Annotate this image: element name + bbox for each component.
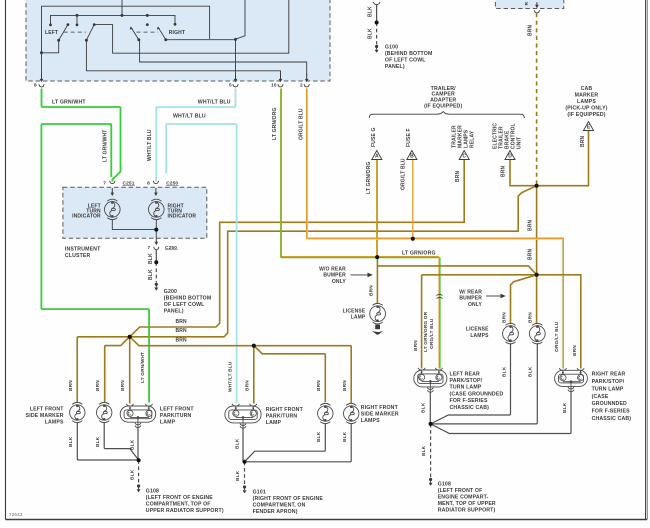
terminal C trailer marker lamps relay [459, 151, 469, 160]
connector arc top of G100 wire [373, 2, 380, 5]
svg-text:ENGINE COMPART-: ENGINE COMPART- [438, 494, 489, 500]
svg-text:TURN LAMP: TURN LAMP [450, 385, 482, 391]
svg-text:BLK: BLK [68, 436, 74, 447]
svg-text:INSTRUMENT: INSTRUMENT [65, 246, 101, 252]
node bus junction feed [121, 14, 124, 17]
svg-text:ORG/LT BLU: ORG/LT BLU [554, 321, 560, 352]
svg-text:LEFT FRONT: LEFT FRONT [30, 407, 64, 413]
svg-text:(RIGHT FRONT OF ENGINE: (RIGHT FRONT OF ENGINE [253, 496, 324, 502]
connector arc below R box [534, 10, 539, 13]
wire BLK from license lamp 2 [431, 343, 538, 424]
svg-text:PARK/STOP/: PARK/STOP/ [592, 379, 625, 385]
svg-text:(PICK-UP ONLY): (PICK-UP ONLY) [565, 106, 607, 112]
svg-text:BLK: BLK [368, 28, 374, 39]
pin 7 connector C250 below cluster [155, 238, 157, 244]
svg-text:BRN: BRN [120, 380, 126, 391]
wire BLK dashed to G101 [244, 462, 246, 485]
lamp right rear park/stop/turn [555, 370, 588, 386]
svg-text:TURN LAMP: TURN LAMP [592, 386, 624, 392]
svg-text:LEFT REAR: LEFT REAR [450, 371, 481, 377]
turn signal switch box [26, 0, 330, 81]
svg-text:BLK: BLK [129, 439, 135, 450]
wire BLK dashed to G200 [155, 262, 157, 282]
svg-text:WHT/LT BLU: WHT/LT BLU [228, 361, 234, 392]
svg-text:BUMPER: BUMPER [323, 273, 346, 279]
svg-text:BRN: BRN [176, 338, 188, 344]
node ORG/LT BLU junction [411, 237, 415, 241]
wire BRN to right front park/turn [253, 346, 255, 404]
svg-text:(BEHIND BOTTOM: (BEHIND BOTTOM [164, 296, 212, 302]
svg-text:2: 2 [300, 83, 303, 89]
svg-text:RIGHT FRONT: RIGHT FRONT [361, 405, 399, 411]
svg-text:BRN: BRN [95, 380, 101, 391]
svg-text:LT GRN/ORG: LT GRN/ORG [272, 107, 278, 140]
wire BRN dashed from connector R [536, 13, 538, 186]
svg-text:7: 7 [147, 245, 150, 251]
svg-text:BRN: BRN [527, 219, 533, 231]
svg-text:SIDE MARKER: SIDE MARKER [361, 412, 399, 418]
svg-text:W/O REAR: W/O REAR [319, 266, 346, 272]
wire WHT/LT BLU from pin 5 to instrument cluster pin 8 [156, 89, 236, 182]
node G100 splice [375, 21, 378, 24]
svg-text:BLK: BLK [95, 436, 101, 447]
wire WHT/LT BLU branch to right front lamp [166, 124, 236, 404]
svg-text:CHASSIC CAB): CHASSIC CAB) [592, 416, 632, 422]
svg-text:INDICATOR: INDICATOR [72, 214, 101, 220]
pin 10 of switch connector [280, 73, 282, 81]
svg-text:ONLY: ONLY [332, 279, 347, 285]
instrument cluster box [63, 187, 207, 238]
lamp left turn indicator [105, 199, 121, 219]
svg-text:LEFT: LEFT [45, 30, 58, 36]
svg-text:LAMP: LAMP [160, 419, 176, 425]
wire LT GRN/WHT branch to left front lamps [41, 124, 149, 403]
svg-text:BRN: BRN [455, 170, 461, 182]
wire BLK from left front lamp 2 [104, 423, 138, 460]
wire BRN to left front park/turn lamp [129, 337, 131, 404]
wire BLK from right rear lamp [431, 391, 571, 434]
terminal A fuse G [372, 151, 382, 160]
svg-text:COMPARTMENT, ON: COMPARTMENT, ON [253, 502, 306, 508]
wire BLK from left front park/turn [137, 427, 139, 460]
wire BLK from cluster to G200 splice [155, 249, 157, 262]
lamp license lamp pair 1 [503, 323, 519, 344]
wire BRN from terminal D [510, 160, 537, 186]
ground G108 front [137, 484, 140, 487]
svg-text:SIDE MARKER: SIDE MARKER [26, 413, 64, 419]
linkage dashes right [137, 31, 159, 33]
pin 5 of switch connector [235, 73, 237, 81]
svg-text:(IF EQUIPPED): (IF EQUIPPED) [424, 104, 462, 110]
svg-text:GROUNNDED: GROUNNDED [592, 401, 627, 407]
wire switch bus [51, 15, 176, 25]
wire BRN from cab marker lamps to junction [537, 131, 589, 186]
wire blade L2 tip to common [94, 0, 289, 53]
svg-text:OF LEFT COWL: OF LEFT COWL [164, 302, 205, 308]
svg-text:MENT, TOP OF UPPER: MENT, TOP OF UPPER [438, 501, 496, 507]
page frame right border [645, 0, 647, 520]
svg-text:R: R [524, 2, 530, 6]
svg-text:BRN: BRN [244, 380, 250, 391]
svg-text:G101: G101 [253, 489, 266, 495]
svg-text:BRN: BRN [369, 285, 375, 296]
svg-text:CLUSTER: CLUSTER [65, 253, 91, 259]
svg-text:(CASE GROUNNDED: (CASE GROUNNDED [450, 391, 504, 397]
svg-text:10: 10 [271, 83, 277, 89]
terminal B fuse F [407, 151, 417, 160]
wire BLK from left rear lamp to junction [429, 392, 431, 424]
ground below license lamp [375, 325, 380, 330]
svg-text:B: B [410, 153, 414, 159]
switch blade right 2 [164, 38, 167, 41]
ground G200 [155, 283, 158, 286]
pin 8 of switch connector [41, 73, 43, 81]
wire BRN junction2 to left rear lamp [422, 275, 537, 369]
svg-text:OF LEFT COWL: OF LEFT COWL [385, 58, 426, 64]
node BRN junction 1 [535, 184, 539, 188]
node pin8 riser junction [40, 51, 43, 54]
svg-text:(BEHIND BOTTOM: (BEHIND BOTTOM [385, 51, 433, 57]
svg-text:8: 8 [147, 180, 150, 186]
wire BRN from terminal C to left front lamps [130, 160, 465, 337]
svg-text:LAMPS: LAMPS [45, 419, 64, 425]
node G200 splice [155, 261, 158, 264]
wire BLK dashed to G100 [376, 23, 378, 45]
wire BLK from right front park/turn [242, 428, 244, 462]
svg-text:BRN: BRN [500, 165, 506, 177]
svg-text:PARK/TURN: PARK/TURN [266, 414, 298, 420]
svg-text:PARK/TURN: PARK/TURN [160, 413, 192, 419]
svg-text:G200: G200 [164, 289, 177, 295]
pin 8 connector C250 [153, 181, 158, 184]
wire BRN branch to junction 2 [377, 266, 536, 275]
svg-text:BLK: BLK [368, 6, 374, 17]
lamp license lamp pair 2 [529, 323, 545, 344]
node right front BRN junction [252, 344, 256, 348]
svg-text:LT GRN/ORG OR: LT GRN/ORG OR [423, 311, 429, 352]
svg-text:72643: 72643 [9, 512, 23, 517]
node bus junction 1 [76, 14, 79, 17]
svg-text:BLK: BLK [235, 470, 241, 481]
svg-text:BLK: BLK [235, 438, 241, 449]
svg-text:ORG/LT BLU: ORG/LT BLU [401, 158, 407, 190]
svg-text:PARK/STOP/: PARK/STOP/ [450, 378, 483, 384]
svg-text:BLK: BLK [421, 445, 427, 456]
lamp right front marker 1 [318, 403, 333, 423]
lamp left rear park/stop/turn [414, 370, 447, 387]
wire pin 8 drop [41, 53, 43, 76]
node pivot4 junction [234, 38, 237, 41]
svg-text:C: C [462, 153, 466, 159]
wire BRN from LT GRN/ORG junction to license lamp [376, 257, 378, 303]
lamp left front marker 2 [97, 402, 112, 422]
svg-text:LT GRN/WHT: LT GRN/WHT [140, 352, 146, 383]
svg-text:LICENSE: LICENSE [343, 308, 366, 314]
svg-text:LAMPS: LAMPS [361, 418, 380, 424]
svg-text:COMPARTMENT, TOP OF: COMPARTMENT, TOP OF [146, 501, 211, 507]
svg-text:BLK: BLK [148, 269, 154, 280]
svg-text:RIGHT: RIGHT [169, 30, 185, 36]
svg-text:BRN: BRN [527, 248, 533, 260]
wire ORG/LT BLU from pin 2 to right rear lamp [307, 89, 564, 369]
svg-text:W/ REAR: W/ REAR [459, 289, 482, 295]
node rear BLK junction [429, 422, 432, 425]
svg-text:BLK: BLK [316, 431, 322, 442]
svg-text:CHASSIC CAB): CHASSIC CAB) [450, 405, 490, 411]
svg-text:LAMP: LAMP [351, 315, 366, 321]
node left front BRN junction [128, 335, 132, 339]
switch blade left 1 [57, 39, 60, 42]
pin 2 of switch connector [306, 73, 308, 81]
arrow w/o rear bumper [351, 274, 368, 276]
wire ORG/LT BLU from fuse F [412, 160, 414, 239]
svg-text:WHT/LT BLU: WHT/LT BLU [198, 100, 231, 106]
svg-text:RIGHT FRONT: RIGHT FRONT [266, 407, 304, 413]
wire BLK from license lamp 1 [431, 343, 511, 424]
node LT GRN/ORG junction [375, 255, 379, 259]
brace for trailer adapter [369, 112, 524, 118]
wire BLK from right front side marker [245, 424, 352, 462]
wire BRN junction2 to right rear lamp [537, 275, 581, 369]
svg-text:CAB: CAB [581, 86, 593, 92]
svg-text:LEFT FRONT: LEFT FRONT [160, 407, 194, 413]
svg-text:FUSE G: FUSE G [371, 127, 377, 147]
connector R box [495, 0, 563, 9]
svg-text:ONLY: ONLY [468, 302, 483, 308]
ground G108 rear [429, 478, 432, 481]
wire pivot3 to pin 2 [140, 40, 307, 75]
svg-text:BRN: BRN [527, 24, 533, 36]
svg-text:BLK: BLK [528, 366, 534, 377]
wire switch feed from top [121, 0, 123, 15]
wire pin 5 drop [235, 39, 237, 75]
svg-text:A: A [375, 153, 379, 159]
svg-text:G100: G100 [385, 45, 398, 51]
svg-text:ORG/LT BLU: ORG/LT BLU [429, 318, 435, 349]
terminal D electric trailer brake control unit [505, 151, 515, 160]
wire LT GRN/ORG down to left rear lamp [438, 257, 440, 369]
page frame bottom border [6, 519, 648, 521]
svg-text:FOR F-SERIES: FOR F-SERIES [592, 409, 631, 415]
svg-text:5: 5 [229, 83, 232, 89]
svg-text:(CASE: (CASE [592, 394, 609, 400]
lamp left front side marker [70, 402, 85, 422]
svg-text:(LEFT FRONT OF: (LEFT FRONT OF [438, 488, 483, 494]
svg-text:BRN: BRN [572, 345, 578, 356]
svg-text:BRN: BRN [68, 380, 74, 391]
svg-text:BRN: BRN [413, 340, 419, 351]
pin 7 connector C251 [110, 181, 115, 184]
wire from top to pivot4 node [236, 0, 246, 39]
svg-text:LAMPS: LAMPS [470, 333, 489, 339]
svg-text:BLK: BLK [148, 253, 154, 264]
wire LT GRN/ORG from pin 10 [281, 89, 440, 257]
wire LT GRN/ORG from fuse A [376, 160, 378, 257]
svg-text:FENDER APRON): FENDER APRON) [253, 509, 298, 515]
lamp left front park/turn [120, 406, 156, 422]
node indicators common junction [155, 228, 158, 231]
svg-text:LT GRN/ORG: LT GRN/ORG [402, 250, 436, 256]
svg-text:(IF EQUIPPED): (IF EQUIPPED) [567, 112, 605, 118]
wire BLK dashed to G108 front [138, 460, 140, 484]
linkage dashes left [64, 31, 86, 33]
switch blade left 2 [85, 39, 88, 42]
svg-text:LICENSE: LICENSE [466, 327, 489, 333]
page frame left border [5, 0, 7, 520]
lamp license lamp [370, 303, 386, 324]
svg-text:D: D [508, 153, 512, 159]
wire pivot2 to pin 10 [86, 40, 280, 75]
terminal E cab marker lamps [583, 122, 593, 131]
ground G100 [375, 45, 378, 48]
svg-text:WHT/LT BLU: WHT/LT BLU [173, 114, 206, 120]
wire bus stub contact 1 [76, 15, 78, 25]
svg-text:PANEL): PANEL) [385, 64, 405, 70]
svg-text:BLK: BLK [421, 402, 427, 413]
junction dots overlay [535, 184, 539, 188]
wire BRN junction1 to junction2 [536, 186, 538, 275]
switch blade right 1 [137, 38, 140, 41]
wire BLK from right front lamp 1 [245, 424, 326, 462]
wire pivot1 to pin 8 riser [42, 40, 59, 53]
wire BLK dashed to G108 rear [430, 424, 432, 478]
svg-text:LAMP: LAMP [266, 420, 282, 426]
svg-text:FOR F-SERIES: FOR F-SERIES [450, 398, 489, 404]
wire indicators common [112, 220, 156, 230]
svg-text:ORG/LT BLU: ORG/LT BLU [299, 108, 305, 140]
svg-text:UNIT: UNIT [516, 137, 522, 149]
svg-text:BRN: BRN [176, 319, 188, 325]
svg-text:BLK: BLK [342, 431, 348, 442]
svg-text:RADIATOR SUPPORT): RADIATOR SUPPORT) [438, 507, 496, 513]
svg-text:LT GRN/ORG: LT GRN/ORG [366, 161, 372, 194]
node right front BLK junction [243, 460, 246, 463]
svg-text:BRN: BRN [502, 312, 508, 323]
wire BRN to right front lamp 1 [254, 346, 325, 403]
wire BRN junction2 to license lamp 1 [511, 275, 537, 324]
svg-text:MARKER: MARKER [575, 92, 599, 98]
wire BLK from left front side marker [77, 423, 138, 460]
svg-text:BRN: BRN [316, 380, 322, 391]
svg-text:7: 7 [103, 180, 106, 186]
svg-text:8: 8 [34, 83, 37, 89]
svg-text:BRN: BRN [342, 380, 348, 391]
svg-text:LAMPS: LAMPS [577, 99, 596, 105]
svg-text:BLK: BLK [562, 402, 568, 413]
node bus junction 2 [146, 14, 149, 17]
wire pivot4 to pin 5 [166, 39, 236, 41]
lamp right front side marker [344, 403, 359, 423]
svg-text:UPPER RADIATOR SUPPORT): UPPER RADIATOR SUPPORT) [146, 508, 224, 514]
arrow w/ rear bumper [486, 295, 501, 297]
svg-text:RIGHT REAR: RIGHT REAR [592, 372, 626, 378]
svg-text:RELAY: RELAY [469, 130, 475, 148]
break symbol on wire [437, 294, 443, 298]
svg-text:FUSE F: FUSE F [406, 128, 412, 147]
svg-text:BUMPER: BUMPER [459, 296, 482, 302]
wire BRN to left front lamp 2 [105, 337, 130, 402]
svg-text:PANEL): PANEL) [164, 309, 184, 315]
svg-text:LT GRN/WHT: LT GRN/WHT [52, 100, 86, 106]
wire BRN to right front lamps junction [130, 337, 352, 404]
ground G101 [243, 485, 246, 488]
node BRN junction 2 [535, 273, 539, 277]
svg-text:BRN: BRN [580, 135, 586, 147]
wire LT GRN/WHT from pin 8 to instrument cluster pin 7 [42, 89, 121, 182]
lamp right front park/turn [225, 406, 261, 423]
svg-text:BLK: BLK [129, 469, 135, 480]
wire BLK to G100 splice [376, 5, 378, 23]
wire BRN to left front side marker [77, 337, 130, 402]
svg-text:G108: G108 [438, 481, 451, 487]
wire BRN junction2 to license lamp 2 [536, 275, 538, 324]
svg-text:BLK: BLK [502, 366, 508, 377]
svg-text:WHT/LT BLU: WHT/LT BLU [147, 129, 153, 161]
lamp right turn indicator [149, 199, 165, 219]
svg-text:(LEFT FRONT OF ENGINE: (LEFT FRONT OF ENGINE [146, 495, 214, 501]
wire BRN junction1 branch to left front lamps [130, 186, 537, 337]
svg-text:INDICATOR: INDICATOR [168, 214, 197, 220]
wire switch top rail [42, 6, 210, 53]
svg-text:LT GRN/WHT: LT GRN/WHT [102, 129, 108, 162]
svg-text:G108: G108 [146, 488, 159, 494]
node left front BLK junction [137, 459, 140, 462]
svg-text:BRN: BRN [528, 312, 534, 323]
svg-text:BRN: BRN [176, 328, 188, 334]
pin arrow of connector R [536, 2, 538, 7]
